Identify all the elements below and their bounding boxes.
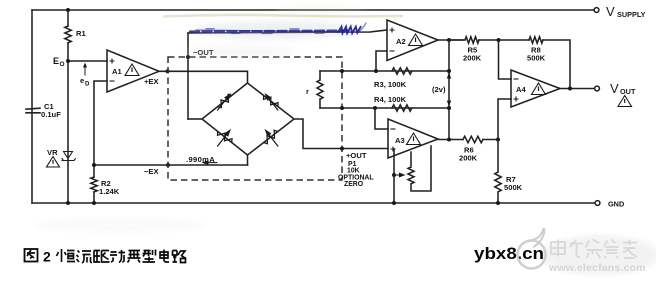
node A1 output at dashed boundary [166,69,170,73]
node A2 inv on R3 line [374,69,378,73]
wire R2 leads [93,165,95,203]
char dian (电) [160,250,169,263]
svg-text:+EX: +EX [144,77,159,86]
node -OUT on dashed top [186,55,190,59]
char liu (流) [77,251,93,264]
svg-text:500K: 500K [527,54,546,63]
blue pen scribble annotation [190,23,366,34]
wire R5 to R8 [479,39,529,41]
node A3 output [447,138,451,142]
node R1 top [66,8,70,12]
wiper arrow P1 [394,174,400,176]
ghost scan smudge line [163,15,403,17]
wire A4 inverting input [499,40,512,79]
svg-text:V: V [610,81,619,96]
op-amp A4 [511,70,560,107]
svg-text:V: V [606,4,615,19]
node r top at dashed boundary [340,69,344,73]
strain gauge bottom-left [217,129,232,147]
node A4 feedback [568,87,572,91]
wire summing vertical with 2V annotation [448,40,450,140]
svg-text:1.24K: 1.24K [99,187,120,196]
wire left rail [31,10,33,203]
wire A3 output [438,139,463,141]
op-amp input polarity marks [110,28,519,152]
svg-text:R4, 100K: R4, 100K [374,95,407,104]
svg-text:(2v): (2v) [432,85,446,94]
char xing (型) [143,250,156,263]
char lu (路) [173,251,187,263]
resistor R7 [495,140,501,204]
A3 plus [391,147,396,152]
A1 plus [110,59,115,64]
node A4 inv junction [497,38,501,42]
resistor r gain [317,71,323,108]
svg-text:10K: 10K [347,168,360,175]
node R4 right [447,106,451,110]
svg-text:200K: 200K [459,154,478,163]
terminal circle GND [595,201,600,206]
A3 minus [391,128,396,130]
resistor R6 [463,136,483,142]
svg-text:R1: R1 [76,29,86,38]
A2 minus [390,50,395,52]
resistor R2 [91,177,97,192]
label V OUT [610,81,636,96]
svg-text:D: D [85,82,90,88]
terminal circle V out [595,86,600,91]
node R7 ground [496,201,500,205]
annotation eD arrow [84,65,86,75]
char dian (典) [128,250,141,263]
wire R6 to R7 junction [483,139,498,141]
node r bottom at dashed boundary [340,106,344,110]
warning triangle at V out [618,96,632,107]
capacitor C1 [26,108,40,113]
svg-text:ZERO: ZERO [344,181,364,188]
svg-text:SUPPLY: SUPPLY [617,10,646,19]
svg-text:VR: VR [47,148,58,157]
wire to bridge left vertex [188,118,202,120]
wire R3 line [320,70,449,72]
warning triangle in A2 [409,34,423,46]
resistor R4 [392,105,412,111]
caption: 图 2 恒流驱动典型电路 drawn as strokes [25,249,187,265]
node VR ground [66,201,70,205]
A4 minus [514,78,519,80]
node R2 ground [92,201,96,205]
svg-text:GND: GND [608,200,624,209]
watermark elecfans CJK text [551,240,637,259]
resistor R1 [65,26,71,43]
svg-text:r: r [306,87,309,96]
svg-text:E: E [53,56,59,66]
op-amp A3 [388,119,438,158]
watermark elecfans logo swoosh [518,228,546,269]
wire -OUT vertical [187,33,189,119]
wire node EO to A1 + input [68,60,107,62]
char dong (动) [110,250,125,263]
resistor R5 [449,37,479,43]
resistor R8 [529,37,543,43]
annotation current arrow .990mA [204,162,217,164]
node A4 non-inv junction [496,138,500,142]
wire A4 output [560,88,595,90]
svg-text:A2: A2 [396,37,406,46]
node P1 wiper [392,173,396,177]
char heng (恒) [57,249,76,262]
node A2 output [447,38,451,42]
strain gauge top-right [264,93,279,111]
svg-text:0.1uF: 0.1uF [41,110,61,119]
svg-text:O: O [60,61,65,68]
label V SUPPLY [606,4,646,19]
node P1 ground [392,201,396,205]
svg-text:e: e [80,76,84,85]
wire R1 branch from top rail [67,10,69,26]
node A3 inv on R4 line [373,106,377,110]
wire A2 output [438,39,463,41]
wire top supply rail [32,9,596,11]
dashed bridge enclosure [168,57,342,180]
wire -EX line [94,164,248,166]
svg-text:+OUT: +OUT [346,151,367,160]
svg-text:.990mA: .990mA [186,155,215,164]
strain gauge top-left [217,93,232,111]
wire R1 to node EO [67,43,69,61]
node -EX at feedback join [92,163,96,167]
terminal circle V supply [594,8,599,13]
svg-text:500K: 500K [504,183,523,192]
warning triangle in A1 [125,64,139,76]
wire EO node down to VR and ground [67,61,69,203]
char qu (驱) [94,251,110,263]
node R3 right [447,69,451,73]
strain gauge bottom-right [264,129,279,147]
warning triangle in A4 [532,83,546,95]
warning triangle in A3 [407,133,421,145]
wire A1 output +EX to bridge top [159,71,248,83]
svg-text:A1: A1 [112,67,122,76]
svg-text:A3: A3 [395,136,405,145]
annotation (2V) arrowheads [447,73,451,107]
svg-text:OUT: OUT [620,87,636,96]
wire A2 inverting input branch [376,51,387,71]
svg-text:R3, 100K: R3, 100K [374,80,407,89]
wire ground rail [32,202,597,204]
wire A1 inverting feedback [94,81,107,165]
A2 plus [390,28,395,33]
svg-text:200K: 200K [463,54,482,63]
char tu (图) [25,249,38,262]
op-amp A1 [107,50,159,92]
wire R4 line [320,107,449,109]
resistor R3 [392,68,412,74]
A4 plus [514,97,519,102]
A1 minus [110,80,115,82]
potentiometer P1 body [408,146,431,191]
zener diode VR [62,152,76,161]
svg-text:−EX: −EX [144,167,159,176]
wire A3 inverting input branch [375,108,388,129]
potentiometer P1 branch [393,149,395,203]
wire -OUT long run to A2 [188,30,387,33]
svg-text:2: 2 [43,249,51,265]
bridge diamond [202,83,294,155]
wire bridge right vertex to +OUT [294,119,388,149]
warning triangle at VR [47,157,60,168]
svg-text:www.elecfans.com: www.elecfans.com [548,262,646,274]
op-amp A2 [387,20,438,61]
wire R8 feedback to output [543,40,570,89]
node -EX at dashed boundary [166,163,170,167]
wire bridge bottom to -EX line [247,155,249,165]
svg-text:A4: A4 [516,85,526,94]
wire A4 non-inverting input [498,99,511,140]
node EO [66,59,70,63]
node +OUT at dashed boundary [340,147,344,151]
